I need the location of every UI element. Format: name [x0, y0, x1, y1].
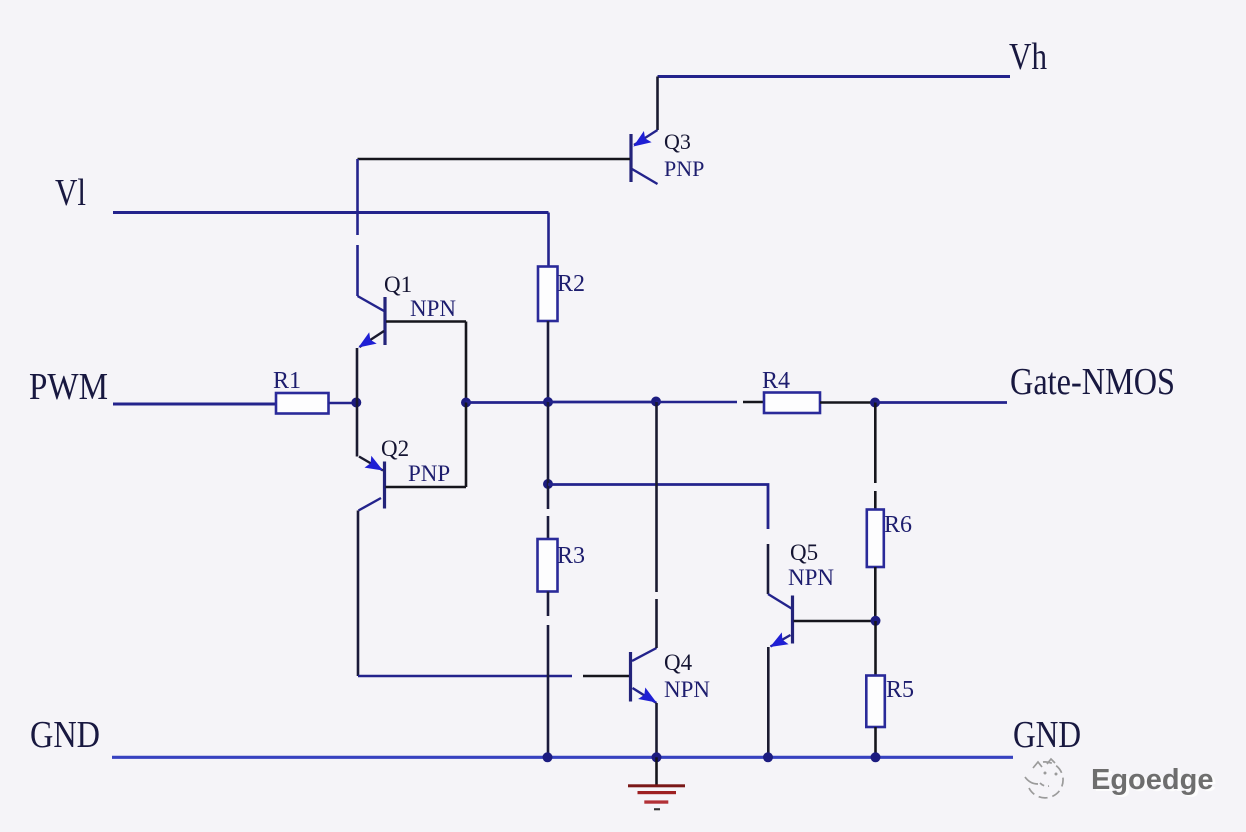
wire Q5 base lead to R6 node — [794, 620, 876, 623]
node GND label right — [1013, 714, 1081, 756]
label R2 — [557, 271, 585, 297]
wire Q5 emitter down to ground rail — [767, 647, 770, 757]
wire vertical down to Q5 collector — [767, 544, 770, 594]
label Q1 — [384, 272, 412, 297]
svg-text:PWM: PWM — [29, 366, 108, 408]
label R4 — [762, 368, 790, 394]
junction dot R2-R3 node — [543, 479, 553, 489]
transistor Q3 — [631, 130, 658, 184]
wire collector node to R4 — [656, 401, 764, 404]
junction dot collector line node — [651, 397, 661, 407]
svg-text:NPN: NPN — [664, 677, 710, 702]
svg-text:NPN: NPN — [410, 296, 456, 321]
transistor Q5 — [768, 594, 793, 647]
wire R2 node to collector line node — [548, 401, 656, 404]
wire vertical Q1 base down to PWM node — [465, 322, 468, 404]
node GND label left — [30, 714, 100, 756]
watermark text Egoedge — [1091, 764, 1216, 798]
wire Q2 collector down left rail — [357, 511, 360, 677]
node Vh label — [1009, 36, 1047, 78]
label Q2 — [381, 436, 409, 461]
wire Q4 emitter to ground rail — [655, 703, 658, 757]
wire R4 to gate node — [820, 401, 875, 404]
node Vl label — [55, 172, 86, 214]
svg-text:R1: R1 — [273, 368, 301, 394]
wire R3 node down to R3 — [547, 484, 550, 539]
svg-text:GND: GND — [30, 714, 100, 756]
svg-text:NPN: NPN — [788, 565, 834, 590]
junction dot ground rail Q5 — [763, 752, 773, 762]
wire Vh horizontal — [658, 75, 1011, 78]
label NPN of Q4 — [664, 677, 710, 702]
watermark logo — [1025, 759, 1063, 798]
svg-text:R6: R6 — [884, 512, 912, 538]
wire vertical Vl corner down to R2 — [547, 213, 550, 267]
wire R2 node down to R3 node — [547, 402, 550, 484]
wire horizontal to Q4 base — [358, 675, 629, 678]
label Q4 — [664, 650, 693, 675]
wire Q3 base lead horizontal — [358, 158, 631, 161]
wire Vl horizontal — [113, 211, 549, 214]
svg-text:Q5: Q5 — [790, 540, 818, 565]
wire bases node to R2 node — [466, 401, 548, 404]
svg-text:Gate-NMOS: Gate-NMOS — [1010, 361, 1175, 403]
wire R2 bottom to node row — [547, 321, 550, 402]
label R3 — [557, 543, 585, 569]
label R1 — [273, 368, 301, 394]
resistor R4 — [764, 393, 820, 414]
junction dot Q5 base node — [871, 616, 881, 626]
label R6 — [884, 512, 912, 538]
label PNP of Q3 — [664, 156, 704, 181]
junction dot gate node — [870, 398, 880, 408]
transistor Q1 — [358, 296, 386, 348]
svg-text:Egoedge: Egoedge — [1091, 764, 1213, 796]
node Gate-NMOS label — [1010, 361, 1175, 403]
label NPN of Q5 — [788, 565, 834, 590]
svg-text:R3: R3 — [557, 543, 585, 569]
svg-text:GND: GND — [1013, 714, 1081, 756]
transistor Q2 — [359, 456, 385, 511]
wire PWM horizontal to R1 — [113, 403, 276, 406]
svg-text:R4: R4 — [762, 368, 790, 394]
wire R3 node horizontal to Q5 branch — [548, 485, 768, 530]
resistor R6 — [867, 510, 884, 568]
label Q5 — [790, 540, 818, 565]
label Q3 — [664, 129, 691, 154]
junction dot ground rail R3 — [543, 752, 553, 762]
resistor R2 — [538, 267, 558, 322]
label NPN of Q1 — [410, 296, 456, 321]
wire Q5 base node down to R5 — [874, 621, 877, 676]
junction dot ground rail R5 — [871, 752, 881, 762]
ground symbol — [628, 757, 685, 810]
resistor R3 — [538, 539, 558, 592]
wire Q3 emitter vertical to Vh — [656, 77, 659, 131]
svg-text:PNP: PNP — [408, 461, 450, 486]
junction dot ground rail Q4 — [652, 752, 662, 762]
wire gate node down to R6 — [874, 403, 877, 511]
svg-text:Q4: Q4 — [664, 650, 693, 675]
wire R6 bottom to Q5 base node — [874, 567, 877, 621]
svg-text:R2: R2 — [557, 271, 585, 297]
label PNP of Q2 — [408, 461, 450, 486]
wire ground rail — [112, 756, 1013, 759]
svg-text:Vh: Vh — [1009, 36, 1047, 78]
svg-text:PNP: PNP — [664, 156, 704, 181]
wire vertical from Q3 base down to Q1 collector — [356, 159, 359, 296]
wire gate node to Gate-NMOS — [875, 401, 1007, 404]
junction dot PWM node — [351, 398, 361, 408]
wire R1 to junction — [329, 402, 357, 405]
wire vertical bases node down to Q2 base — [465, 403, 468, 488]
svg-text:Q3: Q3 — [664, 129, 691, 154]
wire R5 bottom to ground rail — [874, 727, 877, 757]
wire Q4 collector vertical long — [655, 402, 658, 648]
resistor R1 — [276, 393, 329, 414]
junction dot R2 node — [543, 397, 553, 407]
svg-text:Q2: Q2 — [381, 436, 409, 461]
label R5 — [886, 677, 914, 703]
svg-text:Vl: Vl — [55, 172, 86, 214]
transistor Q4 — [631, 648, 657, 703]
wire R3 bottom to ground rail — [547, 592, 550, 758]
wire Q2 base lead — [386, 486, 467, 489]
wire Q1 base lead to vertical — [386, 320, 466, 323]
wire vertical emitters Q1-Q2 through PWM node — [356, 348, 359, 457]
resistor R5 — [866, 676, 885, 728]
node PWM label — [29, 366, 108, 408]
junction dot bases node — [461, 398, 471, 408]
svg-text:R5: R5 — [886, 677, 914, 703]
svg-text:Q1: Q1 — [384, 272, 412, 297]
